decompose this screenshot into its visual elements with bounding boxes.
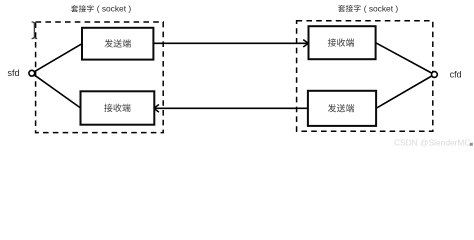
watermark trailing dot [470,143,473,146]
arrow wire left send to right recv [153,42,308,44]
svg-text:( socket ): ( socket ) [364,3,399,13]
wire sfd to left send box [32,44,82,73]
arrowhead right [303,40,308,47]
svg-text:CSDN @SlenderMC: CSDN @SlenderMC [394,138,470,148]
left socket dashed container [36,22,164,133]
right recv box [309,26,376,59]
left send box [82,28,153,60]
node sfd circle [29,70,35,76]
right socket dashed container [297,21,433,131]
text I-beam cursor [32,22,38,39]
right recv label 接收端 [328,38,354,46]
node cfd circle [432,72,438,78]
left title 套接字 ( socket ) [71,4,131,14]
wire sfd to left recv box [32,73,81,108]
right send label 发送端 [328,104,354,112]
wire cfd to right send box [376,75,434,109]
svg-text:cfd: cfd [450,69,462,79]
svg-text:sfd: sfd [7,68,19,78]
arrowhead left [154,105,159,113]
left recv box [81,91,155,124]
wire cfd to right recv box [376,43,435,75]
svg-text:( socket ): ( socket ) [97,4,132,14]
right title 套接字 ( socket ) [338,3,398,13]
right send box [308,91,376,126]
left recv label 接收端 [104,104,130,112]
arrow wire right send to left recv [154,107,308,109]
left send label 发送端 [104,39,130,47]
